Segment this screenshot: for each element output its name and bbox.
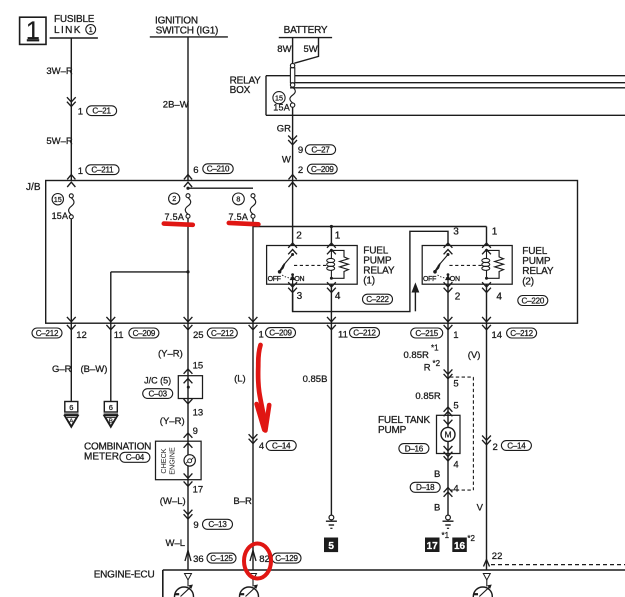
svg-text:12: 12 xyxy=(76,330,87,341)
svg-text:B: B xyxy=(434,469,440,480)
svg-text:36: 36 xyxy=(193,554,204,565)
svg-text:C–209: C–209 xyxy=(311,165,334,174)
svg-text:5: 5 xyxy=(453,401,458,412)
svg-text:9: 9 xyxy=(193,520,198,531)
svg-text:G–R: G–R xyxy=(52,364,72,375)
svg-text:1: 1 xyxy=(453,330,458,341)
svg-text:W: W xyxy=(282,155,291,166)
svg-text:C–21: C–21 xyxy=(92,107,111,116)
svg-text:1: 1 xyxy=(89,27,93,34)
svg-text:GR: GR xyxy=(277,124,291,135)
svg-text:(1): (1) xyxy=(363,276,375,287)
svg-text:METER: METER xyxy=(84,451,119,462)
svg-text:7.5A: 7.5A xyxy=(229,212,249,222)
svg-text:8W: 8W xyxy=(277,44,291,55)
svg-text:3: 3 xyxy=(297,291,303,302)
svg-text:C–222: C–222 xyxy=(366,295,389,304)
svg-text:(L): (L) xyxy=(234,373,246,384)
svg-text:9: 9 xyxy=(193,426,198,437)
svg-text:ON: ON xyxy=(450,276,460,283)
svg-text:OFF: OFF xyxy=(268,276,281,283)
svg-text:R: R xyxy=(424,362,431,373)
svg-text:4: 4 xyxy=(335,291,341,302)
svg-text:(W–L): (W–L) xyxy=(160,496,186,507)
svg-text:25: 25 xyxy=(193,330,204,341)
svg-text:D–16: D–16 xyxy=(405,444,424,453)
svg-text:82: 82 xyxy=(259,554,270,565)
svg-text:*1: *1 xyxy=(431,343,439,352)
svg-text:B: B xyxy=(109,418,113,425)
svg-text:FUSIBLE: FUSIBLE xyxy=(54,14,95,25)
svg-text:OFF: OFF xyxy=(423,276,436,283)
svg-text:1: 1 xyxy=(259,329,264,340)
svg-text:11: 11 xyxy=(338,329,348,340)
svg-text:M: M xyxy=(444,430,451,440)
svg-text:D–18: D–18 xyxy=(416,483,435,492)
svg-text:1: 1 xyxy=(78,106,83,117)
svg-text:15: 15 xyxy=(193,360,204,371)
svg-text:1: 1 xyxy=(78,166,83,177)
svg-text:15A: 15A xyxy=(273,102,290,112)
svg-text:V: V xyxy=(477,503,484,514)
svg-text:B–R: B–R xyxy=(233,496,252,507)
svg-text:17: 17 xyxy=(427,541,439,552)
svg-text:1: 1 xyxy=(335,230,341,241)
svg-text:J/B: J/B xyxy=(26,182,41,193)
svg-text:BATTERY: BATTERY xyxy=(284,25,328,36)
svg-text:C–212: C–212 xyxy=(211,329,234,338)
svg-text:8: 8 xyxy=(236,194,240,203)
svg-text:0.85B: 0.85B xyxy=(303,374,328,385)
svg-text:C–212: C–212 xyxy=(510,329,533,338)
svg-text:4: 4 xyxy=(453,484,458,495)
svg-text:C–14: C–14 xyxy=(507,441,526,450)
svg-text:C–209: C–209 xyxy=(133,329,156,338)
svg-text:C–04: C–04 xyxy=(126,453,145,462)
svg-text:2: 2 xyxy=(455,292,461,303)
svg-text:C–220: C–220 xyxy=(522,296,545,305)
svg-text:C–212: C–212 xyxy=(353,329,376,338)
svg-text:4: 4 xyxy=(259,441,264,452)
svg-text:2: 2 xyxy=(296,230,302,241)
svg-text:15A: 15A xyxy=(52,211,69,221)
svg-text:4: 4 xyxy=(496,292,502,303)
svg-text:(Y–R): (Y–R) xyxy=(160,416,185,427)
svg-text:5W: 5W xyxy=(304,44,318,55)
svg-text:B: B xyxy=(434,503,440,514)
svg-text:*1: *1 xyxy=(442,531,450,540)
svg-text:0.85R: 0.85R xyxy=(404,350,429,361)
svg-text:ON: ON xyxy=(294,276,304,283)
svg-text:15: 15 xyxy=(275,93,283,102)
svg-text:PUMP: PUMP xyxy=(378,425,407,436)
svg-text:C–13: C–13 xyxy=(208,520,227,529)
svg-text:6: 6 xyxy=(193,165,198,176)
svg-text:*2: *2 xyxy=(467,534,475,543)
svg-text:5W–R: 5W–R xyxy=(46,136,73,147)
svg-text:11: 11 xyxy=(114,330,124,341)
svg-text:22: 22 xyxy=(492,551,503,562)
svg-text:3W–R: 3W–R xyxy=(46,66,73,77)
svg-text:LINK: LINK xyxy=(54,25,82,36)
svg-text:2: 2 xyxy=(298,165,303,176)
svg-text:17: 17 xyxy=(193,484,204,495)
svg-text:ENGINE: ENGINE xyxy=(168,447,177,475)
svg-text:2B–W: 2B–W xyxy=(163,100,189,111)
svg-text:SWITCH (IG1): SWITCH (IG1) xyxy=(156,26,219,37)
svg-text:*2: *2 xyxy=(433,359,441,368)
svg-text:5: 5 xyxy=(453,378,458,389)
svg-text:9: 9 xyxy=(298,145,303,156)
svg-text:14: 14 xyxy=(492,330,503,341)
svg-text:(Y–R): (Y–R) xyxy=(158,349,183,360)
svg-text:2: 2 xyxy=(493,442,498,453)
svg-text:A: A xyxy=(69,418,74,425)
svg-text:5: 5 xyxy=(328,541,334,552)
svg-text:ENGINE-ECU: ENGINE-ECU xyxy=(94,570,155,581)
svg-text:15: 15 xyxy=(54,195,62,204)
svg-text:7.5A: 7.5A xyxy=(165,212,185,222)
svg-text:C–212: C–212 xyxy=(36,329,59,338)
svg-text:(B–W): (B–W) xyxy=(81,364,108,375)
svg-text:C–03: C–03 xyxy=(149,389,168,398)
svg-text:BOX: BOX xyxy=(230,85,251,96)
svg-text:C–209: C–209 xyxy=(269,329,292,338)
svg-text:(2): (2) xyxy=(522,276,534,287)
svg-text:W–L: W–L xyxy=(166,538,186,549)
svg-text:C–14: C–14 xyxy=(272,441,291,450)
svg-text:C–129: C–129 xyxy=(275,554,298,563)
svg-text:16: 16 xyxy=(454,541,466,552)
svg-text:6: 6 xyxy=(109,403,113,412)
svg-text:2: 2 xyxy=(172,194,176,203)
svg-text:3: 3 xyxy=(453,227,459,238)
svg-text:C–215: C–215 xyxy=(415,329,438,338)
svg-text:4: 4 xyxy=(453,460,458,471)
svg-text:C–125: C–125 xyxy=(210,554,233,563)
svg-text:(V): (V) xyxy=(468,350,481,361)
svg-text:C–27: C–27 xyxy=(311,146,330,155)
svg-text:6: 6 xyxy=(69,403,73,412)
svg-text:C–210: C–210 xyxy=(207,165,230,174)
svg-text:C–211: C–211 xyxy=(91,166,114,175)
svg-text:J/C (5): J/C (5) xyxy=(144,376,171,386)
svg-text:13: 13 xyxy=(193,407,204,418)
svg-text:1: 1 xyxy=(492,227,498,238)
svg-text:0.85R: 0.85R xyxy=(415,391,440,402)
